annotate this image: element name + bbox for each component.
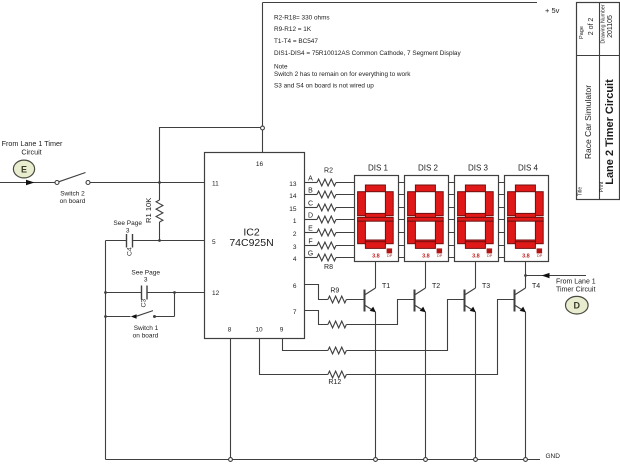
wire DIS3 to T3 collector	[475, 262, 477, 289]
svg-text:14: 14	[289, 193, 297, 200]
net D label	[308, 213, 313, 220]
wire T1 emitter to ground	[375, 312, 377, 460]
From Lane 1 Timer Circuit label (D)	[556, 278, 596, 293]
See Page 3 label (C3)	[131, 269, 160, 283]
transistor T3	[465, 288, 476, 312]
svg-text:1: 1	[293, 218, 297, 225]
From Lane 1 Timer Circuit label (E)	[2, 139, 63, 157]
svg-text:T1: T1	[382, 283, 390, 290]
junction switch 1 net	[104, 315, 107, 318]
svg-text:Switch 1: Switch 1	[134, 325, 159, 332]
net E label	[308, 226, 313, 233]
signal flow arrow (D)	[542, 273, 550, 278]
svg-text:R1 10K: R1 10K	[144, 198, 153, 223]
svg-text:12: 12	[212, 290, 220, 297]
R9 value label	[330, 287, 339, 294]
net B label	[308, 188, 313, 195]
pin 9 label	[280, 327, 284, 334]
wire From Lane 1 (D) to T4 collector	[526, 275, 587, 277]
T4 label	[532, 283, 540, 290]
pin 12 label	[212, 290, 220, 297]
R12 value label	[328, 379, 341, 386]
svg-text:DIS 4: DIS 4	[518, 163, 539, 172]
wire switch 2 to IC pin 11	[90, 182, 205, 184]
svg-text:Note: Note	[274, 63, 288, 70]
svg-text:11: 11	[212, 181, 219, 188]
title block page value 2 of 2	[588, 18, 595, 36]
svg-text:DP: DP	[487, 254, 493, 258]
capacitor C3	[142, 286, 148, 300]
display DIS2 box	[405, 176, 449, 262]
svg-text:6: 6	[293, 283, 297, 290]
resistor R8	[317, 254, 336, 261]
svg-text:GND: GND	[546, 453, 561, 460]
wire DIS4 to T4 collector	[525, 262, 527, 289]
wire IC pin 8 to ground	[230, 338, 232, 460]
transistor T4	[515, 288, 526, 312]
wire IC pin 6 to R9	[305, 285, 328, 300]
resistor R7	[317, 242, 336, 249]
notes text	[274, 14, 461, 89]
DIS4 seven-segment digit	[508, 185, 544, 248]
wire IC pin 7 to R10	[305, 311, 328, 325]
wire net C (pin to segment bus)	[305, 207, 505, 209]
pin 5 label	[212, 239, 216, 246]
resistor R5	[317, 216, 336, 223]
connector D	[566, 296, 589, 314]
DIS1 DP dot	[387, 248, 393, 253]
svg-text:3.8: 3.8	[372, 254, 380, 260]
switch 2 label	[60, 191, 86, 206]
svg-text:16: 16	[256, 161, 264, 168]
title block print value Lane 2 Timer Circuit	[604, 79, 616, 185]
svg-text:R8: R8	[324, 264, 333, 271]
transistor T1	[365, 288, 376, 312]
junction R1 on pin 5 wire	[158, 239, 161, 242]
wire +5V branch to R1	[160, 128, 263, 201]
svg-text:DP: DP	[387, 254, 393, 258]
svg-text:4: 4	[293, 256, 297, 263]
DIS3 DP label	[487, 254, 493, 258]
svg-text:DP: DP	[437, 254, 443, 258]
wire left vertical to ground	[105, 241, 107, 460]
pin 6 label	[293, 283, 297, 290]
+5V power rail	[263, 2, 538, 4]
svg-text:C4: C4	[127, 247, 134, 256]
svg-text:R9: R9	[330, 287, 339, 294]
pin 16 label	[256, 161, 264, 168]
switch 1	[106, 311, 175, 319]
DIS1 3.8 value label	[372, 254, 380, 260]
resistor R10	[328, 321, 347, 328]
ground rail GND	[106, 459, 541, 461]
ground node T3 emitter	[474, 458, 478, 462]
svg-text:Switch 2 has to remain on for: Switch 2 has to remain on for everything…	[274, 71, 411, 78]
svg-text:Page: Page	[579, 26, 585, 39]
wire net A (pin to segment bus)	[305, 182, 505, 184]
transistor T2	[415, 288, 426, 312]
wire switch 1 bypass vertical	[174, 293, 176, 317]
pin 7 label	[293, 309, 297, 316]
svg-text:See Page: See Page	[131, 269, 160, 276]
display DIS4 box	[505, 176, 549, 262]
svg-text:G: G	[308, 251, 313, 258]
pin 10 label	[255, 327, 263, 334]
wire T3 emitter to ground	[475, 312, 477, 460]
svg-text:D: D	[574, 301, 581, 311]
svg-text:C: C	[308, 201, 313, 208]
R2 value label	[324, 168, 333, 175]
wire R11 to T3 base	[346, 300, 464, 351]
DIS3 DP dot	[487, 248, 493, 253]
svg-text:DP: DP	[537, 254, 543, 258]
net C label	[308, 201, 313, 208]
svg-text:R12: R12	[328, 379, 341, 386]
net G label	[308, 251, 313, 258]
wire IC pin 9 to R11	[283, 338, 328, 351]
svg-text:13: 13	[289, 181, 297, 188]
wire R1 to pin 5 net	[159, 222, 161, 241]
ground node pin 8	[229, 458, 233, 462]
wire T2 emitter to ground	[425, 312, 427, 460]
DIS3 seven-segment digit	[458, 185, 494, 248]
svg-text:on board: on board	[133, 332, 159, 339]
ground node T4 emitter	[524, 458, 528, 462]
DIS4 3.8 value label	[522, 254, 530, 260]
DIS2 3.8 value label	[422, 254, 430, 260]
DIS3 3.8 value label	[472, 254, 480, 260]
svg-text:Race Car Simulator: Race Car Simulator	[583, 85, 593, 159]
svg-text:5: 5	[212, 239, 216, 246]
wire input from E	[0, 182, 55, 184]
pin 15 label	[289, 206, 297, 213]
resistor R3	[317, 191, 336, 198]
svg-text:7: 7	[293, 309, 297, 316]
svg-text:T1-T4 = BC547: T1-T4 = BC547	[274, 38, 318, 45]
display DIS3 box	[455, 176, 499, 262]
pin 14 label	[289, 193, 297, 200]
svg-text:3: 3	[126, 227, 130, 234]
DIS2 seven-segment digit	[408, 185, 444, 248]
junction C3 net	[104, 291, 107, 294]
svg-text:3: 3	[144, 276, 148, 283]
svg-text:DIS 3: DIS 3	[468, 163, 489, 172]
svg-text:A: A	[308, 176, 313, 183]
wire R10 to T2 base	[346, 300, 414, 325]
pin 13 label	[289, 181, 297, 188]
junction on T4 collector	[524, 274, 527, 277]
capacitor C4	[127, 234, 133, 248]
title block Page label	[579, 26, 585, 39]
svg-text:T2: T2	[432, 283, 440, 290]
IC reference label IC2 74C925N	[229, 227, 273, 250]
C4 reference label	[127, 247, 134, 256]
svg-text:Switch 2: Switch 2	[60, 191, 85, 198]
svg-text:3.8: 3.8	[422, 254, 430, 260]
wire IC pin 10 to R12	[260, 338, 328, 375]
DIS 4 label	[518, 163, 539, 172]
ground node T2 emitter	[424, 458, 428, 462]
wire DIS2 to T2 collector	[425, 262, 427, 289]
pin 4 label	[293, 256, 297, 263]
net F label	[308, 239, 312, 246]
connector E	[13, 160, 34, 178]
resistor R2	[317, 179, 336, 186]
DIS1 seven-segment digit	[358, 185, 394, 248]
svg-text:E: E	[21, 164, 27, 174]
svg-text:From Lane 1: From Lane 1	[556, 278, 596, 285]
resistor R6	[317, 229, 336, 236]
DIS1 DP label	[387, 254, 393, 258]
DIS 1 label	[368, 163, 389, 172]
junction bypass on pin 12 net	[173, 291, 176, 294]
pin 8 label	[228, 327, 232, 334]
T2 label	[432, 283, 440, 290]
title block Print label	[599, 181, 605, 192]
svg-text:R2: R2	[324, 168, 333, 175]
svg-text:Lane 2 Timer Circuit: Lane 2 Timer Circuit	[604, 79, 616, 185]
wire net F (pin to segment bus)	[305, 245, 505, 247]
svg-text:E: E	[308, 226, 313, 233]
svg-text:DIS 2: DIS 2	[418, 163, 439, 172]
svg-text:3.8: 3.8	[522, 254, 530, 260]
svg-text:S3 and S4 on board is not wire: S3 and S4 on board is not wired up	[274, 82, 374, 89]
wire +5V down to IC pin 16	[262, 3, 264, 153]
svg-text:T3: T3	[482, 283, 490, 290]
resistor R4	[317, 204, 336, 211]
T1 label	[382, 283, 390, 290]
title block title value Race Car Simulator	[583, 85, 593, 159]
R8 value label	[324, 264, 333, 271]
+5V label	[545, 6, 560, 15]
svg-text:B: B	[308, 188, 313, 195]
switch 2	[55, 173, 90, 185]
svg-text:8: 8	[228, 327, 232, 334]
DIS 3 label	[468, 163, 489, 172]
wire T4 emitter to ground	[525, 312, 527, 460]
C3 reference label	[141, 299, 148, 308]
svg-text:3.8: 3.8	[472, 254, 480, 260]
junction R1 on pin 11 wire	[158, 181, 161, 184]
title block Drawing Number label	[601, 4, 607, 43]
wire R12 to T4 base	[346, 300, 514, 375]
resistor R12	[328, 371, 347, 378]
wire IC pin 12 net	[106, 292, 205, 294]
title block frame	[577, 3, 620, 200]
svg-text:Circuit: Circuit	[21, 148, 41, 157]
switch 1 label	[133, 325, 159, 340]
svg-text:201105: 201105	[607, 15, 614, 38]
svg-text:See Page: See Page	[113, 220, 142, 227]
svg-text:2: 2	[293, 231, 297, 238]
wire net B (pin to segment bus)	[305, 194, 505, 196]
wire net G (pin to segment bus)	[305, 257, 505, 259]
pin 11 label	[212, 181, 219, 188]
DIS2 DP label	[437, 254, 443, 258]
net A label	[308, 176, 313, 183]
svg-text:Timer Circuit: Timer Circuit	[556, 287, 595, 294]
title block drawing number value 201105	[607, 15, 614, 38]
svg-text:on board: on board	[60, 198, 86, 205]
signal flow arrow (E)	[26, 180, 35, 185]
svg-text:+ 5v: + 5v	[545, 6, 560, 15]
svg-text:DIS1-DIS4 = 75R10012AS Common: DIS1-DIS4 = 75R10012AS Common Cathode, 7…	[274, 50, 461, 57]
T3 label	[482, 283, 490, 290]
wire IC pin 5 net	[106, 240, 205, 242]
wire net E (pin to segment bus)	[305, 232, 505, 234]
See Page 3 label (C4)	[113, 220, 142, 234]
R1 value label R1 10K	[144, 198, 153, 223]
wire net D (pin to segment bus)	[305, 219, 505, 221]
svg-text:Title: Title	[578, 187, 584, 196]
wire DIS1 to T1 collector	[375, 262, 377, 289]
resistor R9	[328, 296, 347, 303]
DIS4 DP dot	[537, 248, 543, 253]
svg-text:15: 15	[289, 206, 297, 213]
wire R9 to T1 base	[346, 299, 364, 301]
svg-text:F: F	[308, 239, 312, 246]
display DIS1 box	[355, 176, 399, 262]
DIS4 DP label	[537, 254, 543, 258]
pin 1 label	[293, 218, 297, 225]
op IC U1 box 74C925N	[205, 153, 305, 339]
svg-text:T4: T4	[532, 283, 540, 290]
svg-text:10: 10	[255, 327, 263, 334]
node junction on +5V line	[261, 126, 265, 130]
pin 2 label	[293, 231, 297, 238]
svg-text:74C925N: 74C925N	[229, 237, 273, 249]
GND label	[546, 453, 561, 460]
svg-text:9: 9	[280, 327, 284, 334]
svg-text:DIS 1: DIS 1	[368, 163, 389, 172]
svg-text:R9-R12 = 1K: R9-R12 = 1K	[274, 26, 312, 33]
resistor R1	[156, 200, 163, 222]
svg-text:C3: C3	[141, 299, 148, 308]
title block Title label	[578, 187, 584, 196]
svg-text:D: D	[308, 213, 313, 220]
pin 3 label	[293, 244, 297, 251]
DIS2 DP dot	[437, 248, 443, 253]
resistor R11	[328, 347, 347, 354]
ground node T1 emitter	[374, 458, 378, 462]
svg-text:2 of 2: 2 of 2	[588, 18, 595, 36]
svg-text:Drawing Number: Drawing Number	[601, 4, 607, 43]
svg-text:R2-R18= 330 ohms: R2-R18= 330 ohms	[274, 14, 330, 21]
svg-text:3: 3	[293, 244, 297, 251]
DIS 2 label	[418, 163, 439, 172]
